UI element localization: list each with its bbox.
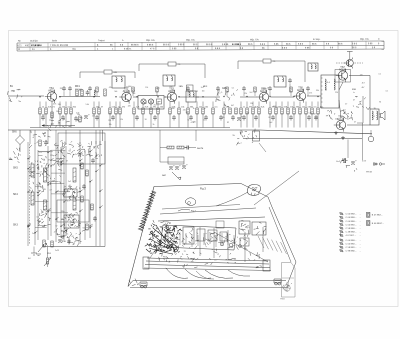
svg-text:12k: 12k (302, 106, 305, 108)
svg-text:220: 220 (261, 88, 264, 90)
svg-text:64 936: 64 936 (232, 43, 240, 46)
svg-text:Ca 7: Ca 7 (237, 143, 242, 145)
svg-text:0.1: 0.1 (232, 87, 235, 89)
svg-text:2n2: 2n2 (250, 92, 253, 94)
svg-text:4.7k: 4.7k (53, 103, 56, 105)
svg-text:5.6k: 5.6k (112, 106, 116, 108)
svg-text:39: 39 (44, 189, 46, 191)
svg-text:47: 47 (101, 106, 103, 108)
svg-text:66 6: 66 6 (352, 47, 357, 49)
svg-text:S1: S1 (83, 228, 85, 230)
svg-text:39k: 39k (316, 90, 319, 92)
svg-text:2n2: 2n2 (301, 89, 304, 91)
svg-text:1n: 1n (118, 106, 120, 108)
svg-text:2x25: 2x25 (55, 250, 59, 252)
svg-text:220: 220 (60, 88, 63, 90)
svg-text:470: 470 (249, 106, 252, 108)
svg-text:220: 220 (360, 75, 363, 77)
svg-text:82: 82 (379, 101, 381, 103)
svg-text:6.8k: 6.8k (284, 106, 288, 108)
svg-text:0.1: 0.1 (218, 93, 221, 95)
svg-text:10n: 10n (202, 91, 205, 93)
svg-text:47k: 47k (109, 87, 112, 89)
svg-text:4.7: 4.7 (54, 232, 57, 234)
svg-text:82: 82 (254, 107, 256, 109)
svg-text:82k: 82k (73, 106, 76, 108)
svg-text:66 6: 66 6 (338, 43, 343, 45)
svg-text:TH 33: TH 33 (366, 172, 373, 174)
svg-text:1.5k: 1.5k (181, 106, 185, 108)
svg-text:1k: 1k (193, 108, 195, 110)
svg-text:C 04 880/...: C 04 880/... (346, 214, 357, 216)
svg-text:1k: 1k (41, 219, 43, 221)
svg-text:100: 100 (278, 106, 281, 108)
svg-text:2n2: 2n2 (343, 110, 346, 112)
svg-text:47k: 47k (126, 87, 129, 89)
svg-text:56k: 56k (308, 106, 311, 108)
svg-text:10n: 10n (77, 114, 80, 116)
svg-text:5A 7M: 5A 7M (197, 147, 203, 150)
svg-text:5k6: 5k6 (264, 89, 267, 91)
svg-text:100: 100 (160, 106, 163, 108)
svg-text:C 58 880/...: C 58 880/... (346, 228, 357, 230)
svg-text:6 6 6: 6 6 6 (298, 44, 304, 46)
svg-text:2n2: 2n2 (32, 233, 35, 235)
svg-text:39k: 39k (186, 112, 189, 114)
svg-text:47: 47 (66, 161, 68, 163)
svg-text:farde: farde (52, 39, 58, 42)
svg-text:SK3: SK3 (13, 224, 18, 227)
svg-text:82: 82 (72, 236, 74, 238)
svg-text:4k7: 4k7 (231, 105, 234, 107)
svg-text:39k: 39k (109, 124, 112, 126)
svg-text:4.7: 4.7 (49, 190, 52, 192)
svg-text:4k7: 4k7 (157, 88, 160, 90)
svg-text:2n2: 2n2 (68, 181, 71, 183)
svg-text:stuk lijst: stuk lijst (30, 39, 38, 42)
svg-text:12k: 12k (222, 117, 225, 119)
svg-text:330: 330 (179, 86, 182, 88)
svg-text:5k6: 5k6 (114, 91, 117, 93)
svg-text:Wijz. Erk.: Wijz. Erk. (250, 38, 260, 41)
svg-text:C 04 880/...: C 04 880/... (346, 221, 357, 223)
svg-text:9T10 684: 9T10 684 (31, 44, 41, 47)
svg-text:4k7: 4k7 (362, 87, 365, 89)
svg-text:39k: 39k (153, 106, 156, 108)
svg-text:66 6: 66 6 (286, 44, 291, 46)
svg-text:12k: 12k (244, 93, 247, 95)
svg-text:47 6 7: 47 6 7 (150, 48, 157, 50)
svg-text:1k: 1k (42, 106, 44, 108)
svg-text:SK5: SK5 (13, 167, 18, 170)
svg-text:0.1: 0.1 (39, 152, 42, 154)
svg-text:2n2: 2n2 (315, 117, 318, 119)
svg-text:4.7k: 4.7k (320, 107, 323, 109)
svg-text:B. Wijz.: B. Wijz. (313, 39, 321, 41)
svg-text:7H33: 7H33 (280, 299, 285, 301)
svg-text:6 6 6: 6 6 6 (352, 43, 358, 45)
svg-text:1.5k: 1.5k (290, 106, 294, 108)
svg-text:0.1: 0.1 (379, 73, 382, 75)
svg-text:220: 220 (62, 106, 65, 108)
svg-text:66 6 6: 66 6 6 (206, 44, 213, 46)
svg-text:4/52: 4/52 (25, 45, 30, 47)
svg-text:5k6: 5k6 (132, 93, 135, 95)
svg-text:47: 47 (48, 160, 50, 162)
svg-text:AF116: AF116 (48, 89, 55, 92)
svg-text:8.2k: 8.2k (261, 106, 265, 108)
svg-text:Wijz. Erk.: Wijz. Erk. (360, 38, 370, 41)
svg-text:82: 82 (227, 122, 229, 124)
svg-text:2n2: 2n2 (201, 87, 204, 89)
svg-text:S2: S2 (69, 150, 71, 152)
svg-text:C 48 880/...: C 48 880/... (346, 232, 357, 234)
svg-text:B 40 880/7...: B 40 880/7... (372, 223, 385, 225)
svg-text:1k: 1k (66, 233, 68, 235)
svg-text:0.1: 0.1 (68, 106, 71, 108)
svg-text:6 6 6: 6 6 6 (215, 48, 221, 50)
svg-text:6 6 6: 6 6 6 (282, 48, 288, 50)
svg-text:4.7k: 4.7k (191, 122, 194, 124)
svg-text:SK6: SK6 (12, 131, 17, 134)
svg-text:330: 330 (188, 92, 191, 94)
svg-text:C 04 880/...: C 04 880/... (346, 217, 357, 219)
svg-text:220: 220 (335, 92, 338, 94)
svg-text:0.5: 0.5 (314, 106, 317, 108)
svg-text:12k: 12k (145, 87, 148, 89)
svg-text:C 04 880/...: C 04 880/... (346, 240, 357, 242)
svg-text:C 04 882/...: C 04 882/... (346, 243, 357, 245)
svg-text:220: 220 (335, 119, 338, 121)
svg-text:66 6 6: 66 6 6 (163, 44, 170, 46)
svg-text:2n2: 2n2 (170, 86, 173, 88)
svg-text:0.1: 0.1 (372, 116, 375, 118)
svg-text:12k: 12k (120, 119, 123, 121)
svg-text:82: 82 (55, 226, 57, 228)
svg-text:6 66 6: 6 66 6 (178, 44, 185, 46)
svg-text:66 6: 66 6 (312, 44, 317, 46)
svg-text:0.1: 0.1 (386, 90, 389, 92)
svg-text:C 04 881/...: C 04 881/... (346, 224, 357, 226)
svg-text:330: 330 (296, 106, 299, 108)
svg-text:66 6: 66 6 (193, 44, 198, 46)
svg-text:Fig.3: Fig.3 (200, 187, 206, 191)
svg-text:330: 330 (58, 104, 61, 106)
svg-text:1k: 1k (204, 108, 206, 110)
svg-text:12k: 12k (199, 106, 202, 108)
svg-text:47: 47 (354, 121, 356, 123)
svg-text:6 46 71: 6 46 71 (124, 48, 132, 50)
svg-text:39: 39 (374, 108, 376, 110)
svg-text:4k7: 4k7 (362, 82, 365, 84)
svg-text:4 07 867 ...: 4 07 867 ... (346, 235, 357, 237)
svg-text:AC128: AC128 (339, 68, 347, 71)
svg-text:8.2k: 8.2k (145, 106, 149, 108)
svg-text:4.7: 4.7 (67, 200, 70, 202)
svg-text:220: 220 (128, 106, 131, 108)
svg-text:MF1: MF1 (75, 85, 80, 88)
svg-text:0.1: 0.1 (37, 216, 40, 218)
svg-text:220p: 220p (50, 155, 54, 157)
svg-text:6 66: 6 66 (172, 48, 177, 50)
svg-text:12k: 12k (79, 89, 82, 91)
svg-text:4.7: 4.7 (40, 172, 43, 174)
svg-text:82: 82 (314, 114, 316, 116)
svg-text:56: 56 (145, 119, 147, 121)
svg-text:82: 82 (109, 113, 111, 115)
svg-text:6 6 66: 6 6 66 (222, 44, 229, 46)
svg-text:82: 82 (187, 120, 189, 122)
svg-text:5.6k: 5.6k (309, 112, 312, 114)
svg-text:1k: 1k (325, 90, 327, 92)
svg-text:6 66 6: 6 66 6 (147, 44, 154, 46)
svg-text:47: 47 (345, 104, 347, 106)
svg-text:66 6: 66 6 (248, 44, 253, 46)
svg-text:5.6k: 5.6k (86, 104, 89, 106)
svg-text:330: 330 (42, 114, 45, 116)
svg-text:10k: 10k (96, 106, 99, 108)
svg-text:6 6 6: 6 6 6 (260, 44, 266, 46)
svg-text:2n2: 2n2 (154, 105, 157, 107)
svg-text:Traject: Traject (98, 39, 105, 42)
svg-text:4.7k: 4.7k (51, 123, 54, 125)
svg-text:SK4: SK4 (13, 193, 18, 196)
svg-text:6 66: 6 66 (368, 43, 373, 45)
svg-text:39k: 39k (250, 103, 253, 105)
svg-text:66 66 6: 66 66 6 (131, 45, 139, 47)
svg-text:1k: 1k (203, 120, 205, 122)
svg-text:2.2k: 2.2k (136, 106, 140, 108)
svg-text:8n2: 8n2 (269, 122, 272, 124)
svg-text:8n2: 8n2 (144, 103, 147, 105)
svg-text:100: 100 (92, 115, 95, 117)
svg-text:3.5V: 3.5V (362, 161, 367, 163)
svg-text:T 22U 01 904 936: T 22U 01 904 936 (50, 45, 69, 47)
svg-text:Wijz. Erk.: Wijz. Erk. (146, 39, 156, 42)
svg-text:100: 100 (56, 111, 59, 113)
svg-text:47: 47 (353, 99, 355, 101)
svg-text:47k: 47k (309, 93, 312, 95)
svg-text:1n: 1n (243, 106, 245, 108)
svg-text:B 47 882/...: B 47 882/... (372, 215, 383, 217)
svg-text:82: 82 (196, 91, 198, 93)
svg-text:1k: 1k (153, 124, 155, 126)
svg-text:6 66: 6 66 (274, 44, 279, 46)
svg-text:47k: 47k (132, 90, 135, 92)
svg-text:82: 82 (269, 117, 271, 119)
svg-text:1k: 1k (71, 145, 73, 147)
svg-text:330: 330 (172, 108, 175, 110)
svg-text:470: 470 (122, 106, 125, 108)
svg-text:C 58 881/...: C 58 881/... (346, 247, 357, 249)
svg-text:C 98 884/...: C 98 884/... (346, 251, 357, 253)
svg-text:Wijz. Erk.: Wijz. Erk. (186, 39, 196, 42)
svg-text:56: 56 (63, 119, 65, 121)
svg-text:AC128: AC128 (337, 118, 345, 121)
svg-text:220: 220 (108, 120, 111, 122)
svg-text:AF116: AF116 (123, 90, 130, 93)
svg-text:5k6: 5k6 (172, 90, 175, 92)
svg-text:220p: 220p (61, 211, 65, 213)
svg-text:6 66: 6 66 (305, 48, 310, 50)
svg-text:1k: 1k (267, 87, 269, 89)
svg-text:0.5: 0.5 (215, 106, 218, 108)
svg-text:220: 220 (246, 113, 249, 115)
svg-text:220: 220 (275, 107, 278, 109)
